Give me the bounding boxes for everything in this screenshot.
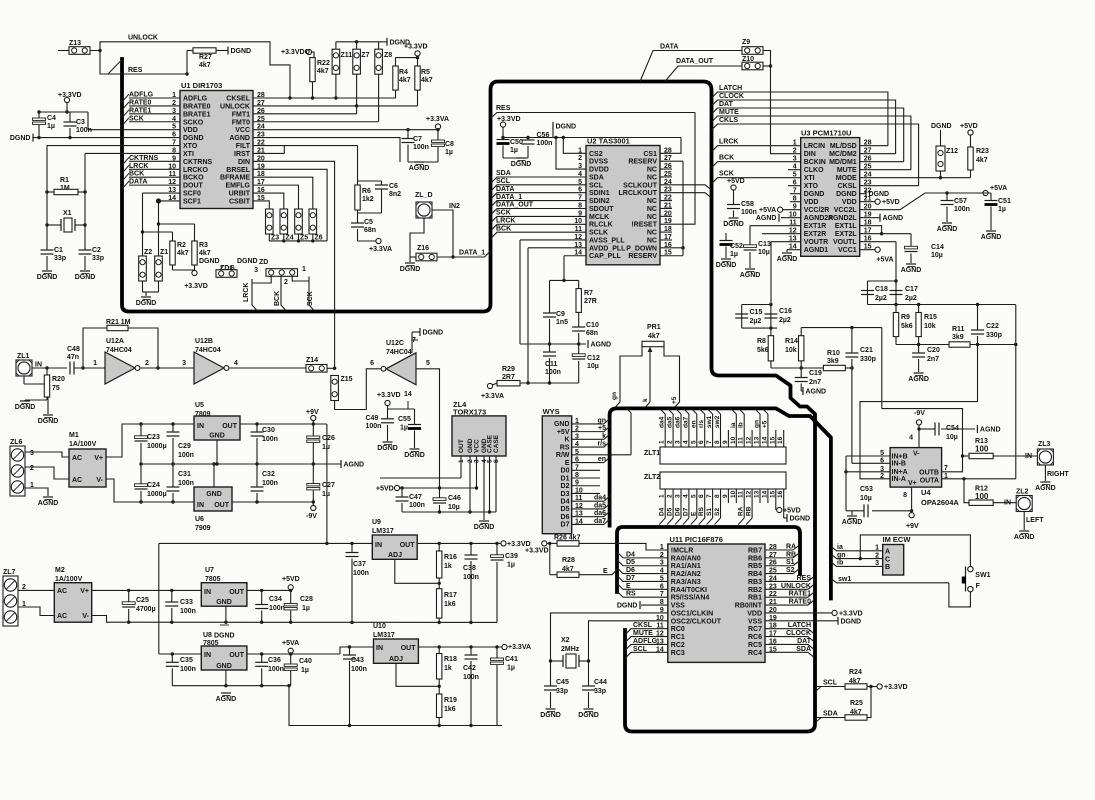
wire PIC OSC2 to X2: [589, 621, 668, 661]
svg-text:ZLT1: ZLT1: [644, 450, 660, 457]
ground DGND under C55: [410, 448, 420, 450]
svg-text:A: A: [885, 549, 890, 556]
svg-text:SDA: SDA: [823, 711, 838, 718]
svg-text:U11 PIC16F876: U11 PIC16F876: [670, 535, 723, 544]
wire WYS signal slants to bus: [604, 417, 612, 424]
svg-text:U10: U10: [373, 623, 386, 630]
wire U6 OUT rail to -9V: [232, 501, 313, 503]
svg-text:Z13: Z13: [69, 40, 81, 47]
svg-text:AGND: AGND: [883, 215, 904, 222]
capacitor C13 10u: [744, 245, 757, 248]
svg-text:10µ: 10µ: [448, 504, 460, 511]
capacitor C38 100n: [470, 543, 472, 555]
wire U4 IN-A from left filter: [860, 345, 978, 479]
svg-text:V+: V+: [94, 455, 103, 462]
svg-text:OUTB: OUTB: [919, 470, 939, 477]
svg-text:+5VD: +5VD: [376, 486, 394, 493]
svg-text:DATA_1: DATA_1: [496, 194, 522, 201]
capacitor C33 100n: [171, 590, 173, 602]
wire SCL to R24: [815, 687, 821, 693]
svg-text:S2: S2: [714, 508, 721, 516]
wire U1 pin1-4 inputs from bus: [129, 97, 180, 99]
capacitor C54 10u: [919, 428, 935, 430]
switch SW1: [968, 566, 973, 571]
svg-text:RATE1: RATE1: [129, 107, 152, 114]
wire C47 C46 ground link: [402, 511, 496, 513]
svg-text:ADFLG: ADFLG: [183, 96, 208, 103]
capacitor C39 1u: [496, 543, 498, 556]
ground AGND under ZL6: [43, 496, 53, 498]
svg-text:AGND2L: AGND2L: [828, 215, 858, 222]
svg-text:OUT: OUT: [222, 423, 238, 430]
svg-text:+5VD: +5VD: [960, 123, 978, 130]
svg-text:AGND: AGND: [591, 342, 612, 349]
svg-text:100n: 100n: [954, 206, 970, 213]
wire right filter loop C15 C16: [769, 303, 772, 306]
wire U1 SCF1 pin14 to Z1: [159, 200, 181, 202]
svg-text:VOUTL: VOUTL: [833, 239, 857, 246]
wire U1 FMT0 row25: [253, 121, 379, 123]
svg-text:V+: V+: [908, 480, 917, 487]
wire U2 RESERV P_DOWN tie: [660, 160, 683, 162]
svg-text:6: 6: [370, 360, 374, 367]
svg-text:CKSEL: CKSEL: [226, 96, 250, 103]
ground DGND under Z1 Z2: [142, 281, 144, 292]
wire U1 IRST row21 tie to FILT: [253, 152, 284, 154]
svg-text:C55: C55: [398, 416, 411, 423]
svg-text:R6: R6: [362, 188, 371, 195]
svg-text:4k7: 4k7: [976, 157, 988, 164]
wire U1 CSBIT row15 to Z3: [253, 201, 269, 209]
svg-text:R8: R8: [757, 338, 766, 345]
wire BCK to U3 BCKIN: [712, 162, 801, 168]
capacitor C43 100n: [349, 647, 351, 655]
resistor R16 1k: [438, 543, 440, 551]
svg-text:DGND: DGND: [404, 452, 425, 459]
ground DGND bar at PIC pin8: [641, 604, 668, 606]
svg-text:EXT1R: EXT1R: [804, 223, 827, 230]
wire U3 AGND1 pin14: [787, 249, 801, 251]
wire +9V to U9 rail: [326, 424, 328, 543]
svg-text:MD/DM1: MD/DM1: [829, 159, 857, 166]
svg-text:C19: C19: [809, 370, 822, 377]
svg-text:+5VD: +5VD: [882, 199, 900, 206]
svg-text:1µ: 1µ: [998, 206, 1006, 213]
svg-text:AGND: AGND: [229, 135, 250, 142]
resistor R7 27R: [576, 289, 581, 313]
svg-text:XTO: XTO: [804, 183, 819, 190]
capacitor C29 100n: [172, 424, 174, 432]
svg-text:RB3: RB3: [748, 579, 762, 586]
svg-text:PR1: PR1: [647, 324, 661, 331]
wire ZL6 pin3 to M1: [25, 452, 69, 457]
wire U10 OUT rail: [418, 646, 502, 648]
capacitor C21 330p: [851, 328, 853, 353]
svg-text:BFRAME: BFRAME: [220, 175, 250, 182]
svg-text:UNLOCK: UNLOCK: [128, 35, 158, 42]
svg-text:C24: C24: [147, 482, 160, 489]
svg-text:CASE: CASE: [493, 434, 500, 453]
svg-text:AGND: AGND: [756, 215, 777, 222]
wire U3 XTO stub: [788, 185, 801, 187]
svg-text:100n: 100n: [178, 452, 194, 459]
svg-text:LM317: LM317: [372, 528, 394, 535]
svg-text:RATE1: RATE1: [789, 591, 812, 598]
svg-text:C20: C20: [927, 347, 940, 354]
svg-text:E: E: [565, 460, 570, 467]
svg-text:NC: NC: [647, 174, 657, 181]
svg-text:RC5: RC5: [748, 642, 762, 649]
svg-text:IN: IN: [1025, 453, 1032, 460]
capacitor C32 100n: [256, 464, 258, 487]
ground DGND bar at U3 pin22: [860, 193, 866, 195]
svg-text:Z14: Z14: [306, 357, 318, 364]
svg-text:RB2: RB2: [748, 587, 762, 594]
capacitor C12 10u: [578, 344, 580, 355]
svg-text:Z12: Z12: [946, 148, 958, 155]
svg-text:RA4/T0CKI: RA4/T0CKI: [671, 587, 707, 594]
svg-text:r/s: r/s: [698, 420, 705, 428]
svg-text:RS: RS: [560, 444, 570, 451]
svg-text:VDD: VDD: [183, 127, 198, 134]
svg-text:D4: D4: [659, 507, 666, 516]
resistor R17 1k6: [438, 583, 440, 588]
svg-text:5k6: 5k6: [901, 323, 913, 330]
svg-text:4: 4: [909, 435, 913, 442]
svg-text:SCF1: SCF1: [183, 198, 201, 205]
resistor R6 1k2: [355, 185, 360, 210]
svg-text:C36: C36: [268, 657, 281, 664]
wire CLOCK from bus: [712, 100, 896, 154]
svg-text:1A/100V: 1A/100V: [69, 441, 97, 448]
wire U4 V+ pin8 to +9V: [911, 487, 913, 512]
svg-text:DATA_OUT: DATA_OUT: [676, 58, 714, 65]
resistor R5 4k7: [415, 66, 420, 90]
svg-text:C48: C48: [67, 346, 80, 353]
svg-text:DGND: DGND: [511, 161, 532, 168]
svg-text:DGND: DGND: [790, 516, 811, 523]
power +3.3VD at R24: [867, 686, 877, 688]
svg-text:RB4: RB4: [748, 571, 762, 578]
svg-text:RB: RB: [746, 506, 753, 516]
wire +9V rail drop to U8: [158, 543, 160, 654]
svg-text:ia: ia: [730, 422, 737, 428]
svg-text:DGND: DGND: [15, 404, 36, 411]
svg-text:+3.3VD: +3.3VD: [525, 548, 549, 555]
svg-text:CKTRNS: CKTRNS: [183, 159, 212, 166]
svg-text:DGND: DGND: [931, 123, 952, 130]
svg-text:C49: C49: [366, 415, 379, 422]
svg-text:C34: C34: [269, 596, 282, 603]
svg-text:R16: R16: [444, 554, 457, 561]
svg-text:E: E: [626, 583, 631, 590]
regulator U8 7805: [201, 646, 247, 670]
svg-text:DATA_OUT: DATA_OUT: [496, 202, 534, 209]
svg-text:2µ2: 2µ2: [750, 318, 762, 325]
svg-text:1µ: 1µ: [301, 667, 309, 674]
svg-text:4k7: 4k7: [199, 250, 211, 257]
wire U2 CS2 pin1: [563, 138, 586, 154]
resistor R9 5k6: [895, 305, 897, 313]
svg-text:+3.3VD: +3.3VD: [58, 92, 82, 99]
svg-text:BCKIN: BCKIN: [804, 159, 826, 166]
svg-text:+5: +5: [761, 420, 768, 428]
svg-text:Z1: Z1: [160, 249, 168, 256]
svg-text:3: 3: [30, 450, 34, 457]
svg-text:100n: 100n: [178, 480, 194, 487]
svg-text:1µ: 1µ: [322, 444, 330, 451]
svg-text:R5/!SS/AN4: R5/!SS/AN4: [671, 595, 710, 602]
wire PIC RES UNLOCK RATE1 RATE0 to bus: [765, 580, 808, 582]
ground AGND bar at U3 pin10: [781, 217, 801, 219]
svg-text:RA0/AN0: RA0/AN0: [671, 555, 701, 562]
wire UNLOCK net: [90, 42, 291, 98]
svg-text:DGND: DGND: [723, 221, 744, 228]
svg-text:R4: R4: [399, 69, 408, 76]
svg-text:Z7: Z7: [361, 52, 369, 59]
svg-text:LATCH: LATCH: [788, 622, 811, 629]
svg-text:RLCLK: RLCLK: [589, 222, 613, 229]
svg-text:74HC04: 74HC04: [386, 349, 412, 356]
svg-text:SCK: SCK: [129, 115, 144, 122]
svg-text:1000µ: 1000µ: [147, 491, 167, 498]
ground AGND under C51: [986, 230, 996, 232]
svg-text:V-: V-: [82, 613, 89, 620]
svg-text:da5: da5: [667, 416, 674, 428]
resistor R4 4k7: [393, 66, 398, 90]
svg-text:F: F: [976, 583, 981, 590]
svg-text:2: 2: [578, 155, 582, 162]
svg-text:C32: C32: [262, 471, 275, 478]
svg-text:C17: C17: [905, 286, 918, 293]
wire U2 SCLKOUT pin24: [660, 185, 712, 190]
svg-text:U3 PCM1710U: U3 PCM1710U: [801, 128, 851, 137]
ground AGND under C19: [802, 387, 804, 395]
svg-text:DVSS: DVSS: [589, 159, 608, 166]
wire ZL1 ground: [23, 376, 25, 384]
wire U1 FMT1 row26: [253, 113, 357, 115]
svg-text:RB6: RB6: [748, 555, 762, 562]
connector Z6: [309, 209, 317, 234]
svg-text:RC6: RC6: [748, 634, 762, 641]
connector Z3: [266, 209, 274, 234]
svg-text:RESERV: RESERV: [628, 253, 657, 260]
svg-text:ML/DSD: ML/DSD: [830, 143, 857, 150]
svg-text:U4: U4: [921, 488, 931, 497]
ground AGND under ZL2: [1019, 530, 1029, 532]
connector Z2: [139, 256, 147, 281]
svg-text:NC: NC: [647, 237, 657, 244]
svg-text:C33: C33: [180, 599, 193, 606]
capacitor C16 2u2: [764, 313, 777, 315]
svg-text:33p: 33p: [54, 255, 66, 262]
svg-text:+3.3VA: +3.3VA: [481, 393, 504, 400]
ground DGND under C58: [729, 217, 739, 219]
svg-text:VCC: VCC: [474, 439, 481, 453]
svg-text:M1: M1: [69, 432, 79, 439]
svg-text:100n: 100n: [366, 423, 382, 430]
svg-text:M2: M2: [55, 567, 65, 574]
svg-text:2: 2: [793, 148, 797, 155]
svg-text:C13: C13: [758, 241, 771, 248]
connector Z11: [332, 49, 340, 74]
capacitor C6 8n2: [358, 180, 382, 182]
svg-text:+5VD: +5VD: [727, 178, 745, 185]
svg-text:OPA2604A: OPA2604A: [921, 498, 959, 507]
svg-text:6: 6: [880, 457, 884, 464]
svg-text:DGND: DGND: [136, 300, 157, 307]
svg-text:OUT: OUT: [229, 589, 245, 596]
svg-text:DGND: DGND: [183, 135, 204, 142]
svg-text:C57: C57: [954, 198, 967, 205]
svg-text:27R: 27R: [584, 298, 597, 305]
svg-text:gn: gn: [611, 392, 618, 400]
svg-text:LRCLKOUT: LRCLKOUT: [619, 190, 658, 197]
svg-text:4k7: 4k7: [199, 62, 211, 69]
svg-text:AGND: AGND: [409, 165, 430, 172]
wire U1 SCF0 pin13 to Z2: [143, 192, 181, 194]
svg-text:4: 4: [234, 360, 238, 367]
svg-text:RS: RS: [698, 506, 705, 516]
svg-text:C25: C25: [136, 597, 149, 604]
svg-text:C51: C51: [998, 198, 1011, 205]
svg-text:SCL: SCL: [633, 646, 648, 653]
wire TORX pins: [460, 456, 462, 478]
wire M2 V+ rail: [92, 589, 202, 591]
svg-text:7: 7: [944, 465, 948, 472]
wire DATA to U2 SDIN1: [491, 193, 586, 199]
svg-text:+3.3VA: +3.3VA: [508, 644, 531, 651]
ground AGND at C53: [851, 511, 853, 515]
svg-text:TORX173: TORX173: [453, 408, 486, 417]
svg-text:DGND: DGND: [400, 266, 421, 273]
power +3.3VD at C3/C4: [64, 97, 69, 102]
svg-text:OUT: OUT: [214, 502, 230, 509]
svg-text:BCK: BCK: [274, 291, 281, 306]
svg-text:DGND: DGND: [38, 418, 59, 425]
power +5VA at U3 VCC1: [860, 249, 875, 251]
wire PR1 terminals to bus: [615, 344, 642, 408]
svg-text:SCLKOUT: SCLKOUT: [623, 182, 658, 189]
svg-text:C2: C2: [92, 247, 101, 254]
ground AGND bar mid rail: [340, 460, 342, 468]
svg-text:100n: 100n: [269, 605, 285, 612]
svg-text:IN: IN: [204, 652, 211, 659]
svg-text:AGND1: AGND1: [804, 247, 829, 254]
svg-text:1µ: 1µ: [510, 147, 518, 154]
ground AGND under U8: [221, 692, 231, 694]
svg-text:R7: R7: [584, 290, 593, 297]
svg-text:AGND: AGND: [980, 427, 1001, 434]
wire U12A out to U12B: [140, 367, 194, 369]
ground AGND under C14: [906, 263, 916, 265]
svg-text:100n: 100n: [463, 574, 479, 581]
svg-text:33p: 33p: [556, 688, 568, 695]
svg-text:3: 3: [182, 360, 186, 367]
svg-text:V-: V-: [913, 451, 920, 458]
svg-text:+5VD: +5VD: [783, 508, 801, 515]
svg-text:RC3: RC3: [671, 650, 685, 657]
wire +3.3V rail to CS1 CS2: [503, 137, 681, 139]
svg-text:U7: U7: [205, 567, 214, 574]
svg-text:4700µ: 4700µ: [136, 606, 156, 613]
svg-text:DGND: DGND: [75, 274, 96, 281]
wire RES net at U1: [100, 51, 187, 75]
svg-text:U12B: U12B: [195, 338, 213, 345]
svg-text:ia: ia: [837, 544, 843, 551]
svg-text:BCK: BCK: [719, 155, 734, 162]
svg-text:SDOUT: SDOUT: [589, 206, 614, 213]
svg-text:+5VA: +5VA: [990, 185, 1007, 192]
svg-text:C5: C5: [364, 219, 373, 226]
svg-text:GND: GND: [216, 599, 232, 606]
wire GND mid rail: [141, 463, 341, 465]
wire MUTE from bus: [712, 116, 911, 170]
svg-text:DAT: DAT: [719, 101, 734, 108]
svg-text:ZD: ZD: [259, 259, 268, 266]
wire DATA_OUT to U2 SDOUT: [491, 209, 586, 215]
svg-text:da4: da4: [659, 416, 666, 428]
svg-text:8n2: 8n2: [389, 191, 401, 198]
svg-text:ZL1: ZL1: [17, 353, 30, 360]
svg-text:5k6: 5k6: [757, 347, 769, 354]
svg-text:AGND: AGND: [38, 500, 59, 507]
svg-text:+3.3VD: +3.3VD: [184, 283, 208, 290]
resistor R15 10k: [918, 305, 920, 313]
svg-text:74HC04: 74HC04: [195, 347, 221, 354]
wire SDA to U2: [491, 177, 586, 183]
svg-text:IN: IN: [197, 423, 204, 430]
capacitor C10 68n: [578, 312, 580, 327]
wire PIC RA RB S1 S2 to bus: [765, 549, 793, 551]
svg-text:D7: D7: [682, 507, 689, 516]
capacitor C26 1u: [312, 424, 314, 437]
svg-text:S1: S1: [706, 508, 713, 516]
capacitor C41 1u: [496, 647, 498, 659]
svg-text:LRCK: LRCK: [719, 139, 738, 146]
svg-text:RB: RB: [786, 551, 796, 558]
svg-text:VDD: VDD: [747, 610, 762, 617]
wire BCK to ZD: [281, 277, 287, 312]
svg-text:+9V: +9V: [906, 523, 919, 530]
svg-text:VDD: VDD: [842, 199, 857, 206]
svg-text:2µ2: 2µ2: [779, 317, 791, 324]
ground AGND bar at C54: [976, 425, 978, 433]
svg-text:CLOCK: CLOCK: [719, 93, 744, 100]
svg-text:D7: D7: [561, 522, 570, 529]
svg-text:da7: da7: [682, 416, 689, 428]
capacitor C55 1u polarized: [414, 409, 416, 425]
power +3.3VD at U9 out: [501, 541, 506, 546]
svg-text:OSC2/CLKOUT: OSC2/CLKOUT: [671, 618, 722, 625]
svg-text:DGND: DGND: [540, 712, 561, 719]
power +3.3VA under C5: [358, 240, 377, 242]
svg-text:D6: D6: [675, 507, 682, 516]
svg-text:7805: 7805: [203, 640, 219, 647]
resistor R20 75: [46, 368, 48, 375]
svg-text:8: 8: [903, 492, 907, 499]
capacitor C22 330p: [977, 305, 979, 331]
svg-text:gn: gn: [837, 552, 846, 559]
svg-text:100n: 100n: [180, 666, 196, 673]
svg-text:DGND: DGND: [716, 262, 737, 269]
svg-text:RC1: RC1: [671, 634, 685, 641]
svg-text:100n: 100n: [351, 666, 367, 673]
wire U1 FILT row22 to R6: [253, 145, 358, 147]
svg-text:C1: C1: [54, 247, 63, 254]
wire ZL3 ground: [1044, 465, 1046, 481]
svg-text:+5V: +5V: [557, 429, 570, 436]
